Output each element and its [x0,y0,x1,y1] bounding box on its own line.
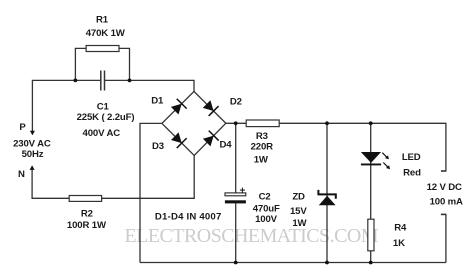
svg-text:D3: D3 [152,141,164,152]
svg-text:1W: 1W [254,154,269,165]
wire: R1 left leg [75,48,86,80]
svg-text:ZD: ZD [292,192,305,203]
wire: bottom negative rail [140,262,446,264]
resistor R3 box [246,120,279,127]
diode D2 [203,100,219,116]
svg-text:1K: 1K [393,238,405,249]
svg-text:D4: D4 [220,140,233,151]
wire: R4 bottom to rail [370,251,372,263]
capacitor C2 plus sign [240,188,245,193]
junction dot R4 bottom [369,261,373,265]
svg-text:1W: 1W [292,218,307,229]
svg-text:Red: Red [403,168,421,179]
wire: top AC wire right of C1 down to bridge top corner [105,80,194,91]
wire: P terminal drop and top AC wire left of C1 [32,80,100,134]
junction dot C2 top [234,121,238,125]
zener diode ZD [318,190,335,205]
svg-text:LED: LED [402,152,421,163]
svg-text:D1: D1 [151,96,164,107]
svg-text:100V: 100V [255,214,278,225]
svg-text:R3: R3 [256,131,268,142]
svg-text:D2: D2 [230,96,242,107]
junction dot ZD top [325,121,329,125]
capacitor C1 plates [101,71,105,91]
svg-text:N: N [18,169,25,180]
junction dot R1 right [128,79,132,83]
svg-text:D1-D4 IN 4007: D1-D4 IN 4007 [155,212,222,223]
wire: C2 branch bottom [235,203,237,262]
junction dot LED top [369,121,373,125]
svg-text:12 V DC: 12 V DC [427,182,462,193]
svg-text:R4: R4 [394,222,407,233]
input terminal P arrow [30,131,35,136]
input terminal N arrow [30,165,35,170]
junction dot ZD bottom [325,261,329,265]
svg-text:R1: R1 [96,14,109,25]
wire: R2 right to bridge bottom corner [102,155,195,198]
diode D1 [171,99,187,115]
svg-text:220R: 220R [251,141,274,152]
svg-text:R2: R2 [81,209,93,220]
junction dot R1 left [74,79,78,83]
capacitor C2 top plate [225,193,246,196]
svg-text:C1: C1 [97,101,110,112]
svg-text:ELECTROSCHEMATICS.COM: ELECTROSCHEMATICS.COM [125,225,379,247]
svg-text:15V: 15V [290,206,307,217]
junction dot C2 bottom [234,261,238,265]
wire: output terminal bottom tick [441,213,447,215]
svg-text:100R 1W: 100R 1W [67,220,107,231]
diode D4 [203,131,219,147]
svg-text:400V AC: 400V AC [83,128,121,139]
resistor R2 box [69,196,101,202]
wire: bridge left corner to negative rail [140,123,162,262]
svg-text:P: P [19,122,26,133]
resistor R1 box [86,46,119,52]
resistor R4 box [368,219,374,251]
svg-text:225K ( 2.2uF): 225K ( 2.2uF) [77,112,135,123]
wire: ZD branch [326,123,328,262]
wire: N terminal to R2 left [32,166,69,198]
wire: bridge right corner to R3 [226,122,246,124]
svg-text:100 mA: 100 mA [430,196,463,207]
wire: LED branch top to R4 [370,123,372,219]
wire: C2 branch top [235,123,237,193]
capacitor C2 bottom plate [225,200,246,203]
LED [361,152,390,169]
svg-text:C2: C2 [259,192,271,203]
wire: R1 right leg [119,48,130,80]
diode bridge arms [162,91,226,155]
wire: output bottom drop to rail [445,214,447,262]
diode D3 [171,132,187,148]
svg-text:50Hz: 50Hz [22,149,44,160]
svg-text:470K 1W: 470K 1W [86,28,126,39]
wire: output terminal top tick [441,170,447,172]
wire: R3 to positive rail and output drop [279,123,446,171]
svg-text:470uF: 470uF [253,204,280,215]
